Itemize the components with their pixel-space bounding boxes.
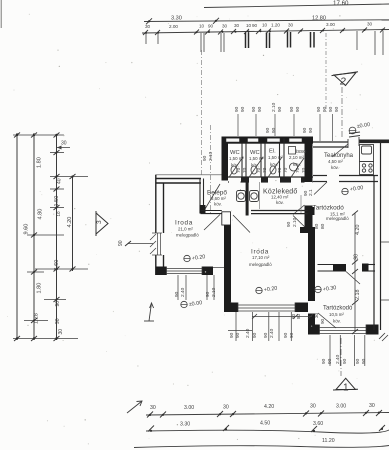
vertical connectors for rotated pair rows xyxy=(238,114,333,141)
annex south wall xyxy=(156,267,167,276)
svg-text:90: 90 xyxy=(263,332,269,338)
svg-text:2.40: 2.40 xyxy=(245,328,251,338)
section line 1 vertical xyxy=(340,338,342,376)
svg-text:90: 90 xyxy=(251,106,257,112)
construction line wc2 door xyxy=(259,182,261,209)
svg-text:90: 90 xyxy=(283,332,289,338)
level mark above entry xyxy=(349,122,371,134)
horizontal tick lines left chain xyxy=(13,135,88,339)
door jamb fills WC row xyxy=(241,177,311,182)
top wall left portion xyxy=(201,211,222,214)
svg-text:Tartózkodó: Tartózkodó xyxy=(313,205,345,212)
labels detailed chain xyxy=(145,22,373,30)
lower part of east bar xyxy=(305,206,313,228)
corner slashes xyxy=(379,333,388,341)
svg-text:90: 90 xyxy=(271,127,277,133)
svg-text:70: 70 xyxy=(283,167,289,173)
dashed axis through belépő xyxy=(201,50,203,176)
svg-text:90: 90 xyxy=(342,358,348,364)
divider door swing xyxy=(346,272,360,285)
label El xyxy=(268,149,283,168)
center iroda south window xyxy=(238,303,295,313)
svg-text:1: 1 xyxy=(343,383,349,394)
label Tartózkodó lower xyxy=(323,306,353,324)
right rooms vertical dim line xyxy=(354,213,356,332)
small dim line under center iroda xyxy=(252,316,312,318)
label WC1 xyxy=(229,150,244,168)
dashed axis through belépő 2 xyxy=(210,125,212,213)
swing into annex iroda xyxy=(204,215,220,231)
svg-text:2.1: 2.1 xyxy=(308,189,314,196)
level ±0.00 annex below xyxy=(181,300,203,308)
svg-text:90: 90 xyxy=(55,318,61,324)
section marker triangle 3 xyxy=(96,211,108,236)
bottom detail labels xyxy=(150,403,375,411)
svg-text:köv.: köv. xyxy=(276,200,284,205)
belépő partition xyxy=(200,179,204,214)
level +0.20 center iroda xyxy=(256,286,278,294)
left edge scan line xyxy=(0,0,2,28)
svg-text:2.40: 2.40 xyxy=(180,287,186,297)
svg-text:70: 70 xyxy=(301,167,307,173)
door swing into right rooms xyxy=(293,216,309,232)
svg-text:.98: .98 xyxy=(354,254,360,261)
swing lower tartozkodo west door xyxy=(318,313,336,328)
tick xyxy=(213,18,219,24)
svg-text:köv.: köv. xyxy=(231,163,239,168)
svg-text:90: 90 xyxy=(234,106,240,112)
svg-text:90: 90 xyxy=(257,106,263,112)
svg-text:90: 90 xyxy=(320,318,325,324)
small arrow mark at bottom dims xyxy=(127,401,142,413)
svg-text:90: 90 xyxy=(295,106,301,112)
svg-text:90: 90 xyxy=(328,106,334,112)
dashed axis right of wc block xyxy=(325,33,327,112)
svg-text:3: 3 xyxy=(96,220,103,224)
svg-text:30: 30 xyxy=(369,403,375,409)
door gap in west wall of lower tartozkodo xyxy=(308,314,315,325)
svg-text:80: 80 xyxy=(320,223,326,229)
svg-text:70: 70 xyxy=(262,167,268,173)
svg-text:12,40 m²: 12,40 m² xyxy=(271,195,289,200)
right rooms divider xyxy=(318,265,376,272)
svg-text:90: 90 xyxy=(235,332,241,338)
dim line 3.30 / 12.80 xyxy=(144,20,389,22)
svg-text:köv.: köv. xyxy=(251,163,259,168)
east facade double wall xyxy=(374,143,381,330)
annex window west glazing xyxy=(152,233,162,255)
svg-text:2.10: 2.10 xyxy=(271,102,277,112)
svg-text:4.80: 4.80 xyxy=(38,209,44,220)
center iroda north wall xyxy=(251,211,308,214)
left chain col1 9.60 xyxy=(16,133,18,340)
north wall teakonyha xyxy=(313,142,348,147)
svg-text:70: 70 xyxy=(242,167,248,173)
left chain col4 4.20 xyxy=(72,176,74,271)
west wall annex with window xyxy=(156,175,164,275)
label Iroda annex xyxy=(175,220,199,238)
svg-text:1,50 m²: 1,50 m² xyxy=(249,156,264,161)
extension line left of lower wall xyxy=(228,330,252,332)
svg-text:4.20: 4.20 xyxy=(264,404,274,410)
label Teakonyha xyxy=(324,153,354,170)
svg-text:3.30: 3.30 xyxy=(171,16,182,22)
svg-text:70: 70 xyxy=(295,167,301,173)
thick opening extension marks xyxy=(246,32,315,48)
svg-text:90: 90 xyxy=(240,106,246,112)
east wall tick lines xyxy=(381,242,389,300)
svg-text:90: 90 xyxy=(302,127,308,133)
svg-text:2.18: 2.18 xyxy=(355,290,361,301)
svg-text:30: 30 xyxy=(145,24,151,29)
center iroda south wall xyxy=(224,303,238,313)
svg-text:Iroda: Iroda xyxy=(175,220,193,227)
svg-text:2.40: 2.40 xyxy=(335,354,341,364)
detailed dim line xyxy=(142,30,389,34)
label Közlekedő xyxy=(263,189,298,206)
svg-text:30: 30 xyxy=(222,24,228,29)
svg-text:30: 30 xyxy=(58,329,64,335)
svg-text:30: 30 xyxy=(310,404,316,410)
svg-text:köv.: köv. xyxy=(293,162,301,167)
label WC2 xyxy=(249,150,264,168)
black wall annex/iroda (main west bar) xyxy=(224,224,231,310)
svg-text:3.00: 3.00 xyxy=(336,404,346,410)
svg-text:1,50 m²: 1,50 m² xyxy=(229,156,244,161)
svg-text:90: 90 xyxy=(321,358,327,364)
svg-text:2.00: 2.00 xyxy=(169,24,178,29)
svg-text:10,5 m²: 10,5 m² xyxy=(329,312,344,317)
svg-text:30: 30 xyxy=(61,141,67,147)
svg-text:30: 30 xyxy=(150,405,156,411)
bottom detail ticks xyxy=(147,410,382,418)
svg-text:2.40: 2.40 xyxy=(269,328,275,338)
WC partitions xyxy=(242,139,284,177)
svg-text:90: 90 xyxy=(55,301,61,307)
svg-text:30: 30 xyxy=(234,23,240,28)
svg-text:4.20: 4.20 xyxy=(67,217,73,228)
bottom detailed dim line xyxy=(146,413,389,416)
svg-text:90: 90 xyxy=(361,358,367,364)
svg-text:2,10 m²: 2,10 m² xyxy=(289,155,304,160)
extension lines below top chain xyxy=(146,31,383,55)
svg-text:90: 90 xyxy=(289,106,295,112)
svg-text:90: 90 xyxy=(355,358,361,364)
svg-text:1,50 m²: 1,50 m² xyxy=(268,155,283,160)
svg-text:90: 90 xyxy=(308,127,314,133)
dim line overall 17.60 xyxy=(204,4,389,8)
left chain col2 xyxy=(33,133,35,340)
extension lines below south walls xyxy=(178,275,365,366)
small arrow mark lower left xyxy=(144,303,154,321)
annex south window glazing xyxy=(167,267,225,276)
svg-text:10: 10 xyxy=(262,23,268,28)
door leaf rect at belépő double door xyxy=(222,212,231,225)
svg-text:2: 2 xyxy=(339,76,346,88)
svg-text:melegpadló: melegpadló xyxy=(326,216,349,221)
left chain col3 xyxy=(56,134,58,340)
svg-text:90: 90 xyxy=(208,24,214,29)
label Iroda center xyxy=(249,249,272,268)
svg-text:70: 70 xyxy=(277,167,283,173)
svg-text:90: 90 xyxy=(334,106,340,112)
svg-text:köv.: köv. xyxy=(270,162,278,167)
svg-text:90: 90 xyxy=(289,332,295,338)
svg-text:köv.: köv. xyxy=(331,165,339,170)
divider piers xyxy=(333,264,369,272)
annex north wall xyxy=(156,179,202,184)
svg-text:17.60: 17.60 xyxy=(333,0,349,7)
svg-text:17,10 m²: 17,10 m² xyxy=(252,255,270,260)
svg-text:9.60: 9.60 xyxy=(24,224,30,235)
svg-text:11.20: 11.20 xyxy=(322,438,335,444)
svg-text:4.50: 4.50 xyxy=(260,421,270,427)
label Belépő xyxy=(207,190,227,207)
divider door swing xyxy=(314,182,327,195)
svg-text:40: 40 xyxy=(57,178,63,184)
svg-text:90: 90 xyxy=(205,291,211,297)
svg-text:melegpadló: melegpadló xyxy=(176,233,199,238)
svg-text:10: 10 xyxy=(56,211,61,217)
svg-text:3,60 m²: 3,60 m² xyxy=(211,196,226,201)
its window xyxy=(320,325,367,335)
svg-text:4.20: 4.20 xyxy=(355,225,361,236)
lower tartozkodo south wall xyxy=(308,325,320,335)
svg-text:2.10: 2.10 xyxy=(208,151,214,161)
pier at its top xyxy=(300,227,308,233)
level +0.00 upper tartozkodo xyxy=(342,185,364,195)
chain intersection dots xyxy=(145,20,384,432)
iroda door swing xyxy=(233,215,250,233)
north wall right of entry door xyxy=(359,140,389,144)
svg-text:2.10: 2.10 xyxy=(292,217,298,227)
svg-text:90: 90 xyxy=(252,23,258,28)
WC south wall with door gaps xyxy=(228,177,313,182)
WC toilets xyxy=(231,147,298,175)
door gap in east bar xyxy=(305,182,313,206)
annex north wall outer face line xyxy=(156,174,225,176)
svg-text:3.00: 3.00 xyxy=(326,22,335,27)
svg-text:3.00: 3.00 xyxy=(184,405,194,411)
teakonyha / tartozkodo divider xyxy=(313,176,378,182)
entry door opening marks xyxy=(348,132,360,148)
svg-text:köv.: köv. xyxy=(333,319,341,324)
label Pisso xyxy=(289,149,306,167)
svg-text:1.80: 1.80 xyxy=(37,283,43,294)
svg-text:21,0 m²: 21,0 m² xyxy=(178,227,193,232)
jamb pier right end xyxy=(308,207,315,215)
svg-text:90: 90 xyxy=(277,106,283,112)
svg-text:Tartózkodó: Tartózkodó xyxy=(323,306,353,312)
bottom middle labels xyxy=(180,421,323,428)
svg-text:30: 30 xyxy=(288,23,294,28)
WC door swings xyxy=(230,157,305,177)
svg-text:70: 70 xyxy=(236,167,242,173)
entry door swing xyxy=(332,144,348,157)
svg-text:90: 90 xyxy=(174,291,180,297)
svg-text:1.80: 1.80 xyxy=(37,157,43,168)
construction line pisso door xyxy=(300,195,302,213)
section marker triangle 1 xyxy=(333,378,358,390)
level +0.30 lower tartozkodo xyxy=(315,285,337,293)
svg-text:3.60: 3.60 xyxy=(313,421,323,427)
svg-text:melegpadló: melegpadló xyxy=(249,262,272,267)
swing at east bar door xyxy=(293,205,305,215)
teakonyha stove xyxy=(360,162,374,175)
svg-text:90: 90 xyxy=(229,332,235,338)
svg-text:90: 90 xyxy=(118,240,124,246)
svg-text:1.20: 1.20 xyxy=(271,23,280,28)
stub wall between basins xyxy=(246,182,249,216)
svg-text:10: 10 xyxy=(199,24,205,29)
east black bar of WC block xyxy=(305,139,313,183)
svg-text:80: 80 xyxy=(296,313,301,319)
svg-text:90: 90 xyxy=(202,155,208,161)
tick line to plan xyxy=(128,243,153,245)
section line 2 (vertical dash-dot) xyxy=(341,87,343,137)
bottom middle ticks xyxy=(148,425,385,432)
svg-text:90: 90 xyxy=(286,221,292,227)
north wall WC block (thick with vent boxes) xyxy=(222,137,314,144)
chain intersection dots left xyxy=(16,134,74,340)
annex entry swing xyxy=(205,184,220,209)
level +0.20 annex xyxy=(184,254,206,262)
hatch west window xyxy=(150,234,156,254)
ticks detailed chain xyxy=(143,28,385,36)
svg-text:90: 90 xyxy=(322,106,328,112)
center iroda east wall xyxy=(308,227,315,301)
svg-text:30: 30 xyxy=(367,22,373,27)
partition bottom blob xyxy=(200,205,206,214)
svg-text:2.10: 2.10 xyxy=(211,287,217,297)
svg-text:90: 90 xyxy=(316,106,322,112)
svg-text:30: 30 xyxy=(314,312,319,318)
svg-text:4,50 m²: 4,50 m² xyxy=(328,159,343,164)
svg-text:90: 90 xyxy=(327,358,333,364)
tick xyxy=(146,18,152,24)
svg-text:90: 90 xyxy=(265,127,271,133)
svg-text:10: 10 xyxy=(246,23,252,28)
label Tartózkodó upper xyxy=(313,205,350,222)
teakonyha sink unit xyxy=(360,145,374,162)
svg-text:köv.: köv. xyxy=(214,202,222,207)
tick slashes left chain xyxy=(14,133,76,342)
svg-text:El.: El. xyxy=(269,149,276,155)
svg-text:3.30: 3.30 xyxy=(180,422,190,428)
svg-text:30: 30 xyxy=(223,405,229,411)
bottom middle dim line xyxy=(146,430,389,433)
bottom overall dim line xyxy=(134,446,389,448)
svg-text:70: 70 xyxy=(256,167,262,173)
svg-text:80: 80 xyxy=(314,223,320,229)
section marker triangle 2 xyxy=(332,72,359,86)
svg-text:90: 90 xyxy=(252,332,258,338)
black wall WC1 west xyxy=(222,143,229,181)
svg-text:12.80: 12.80 xyxy=(312,16,326,22)
kozlekedo basins xyxy=(237,191,259,202)
